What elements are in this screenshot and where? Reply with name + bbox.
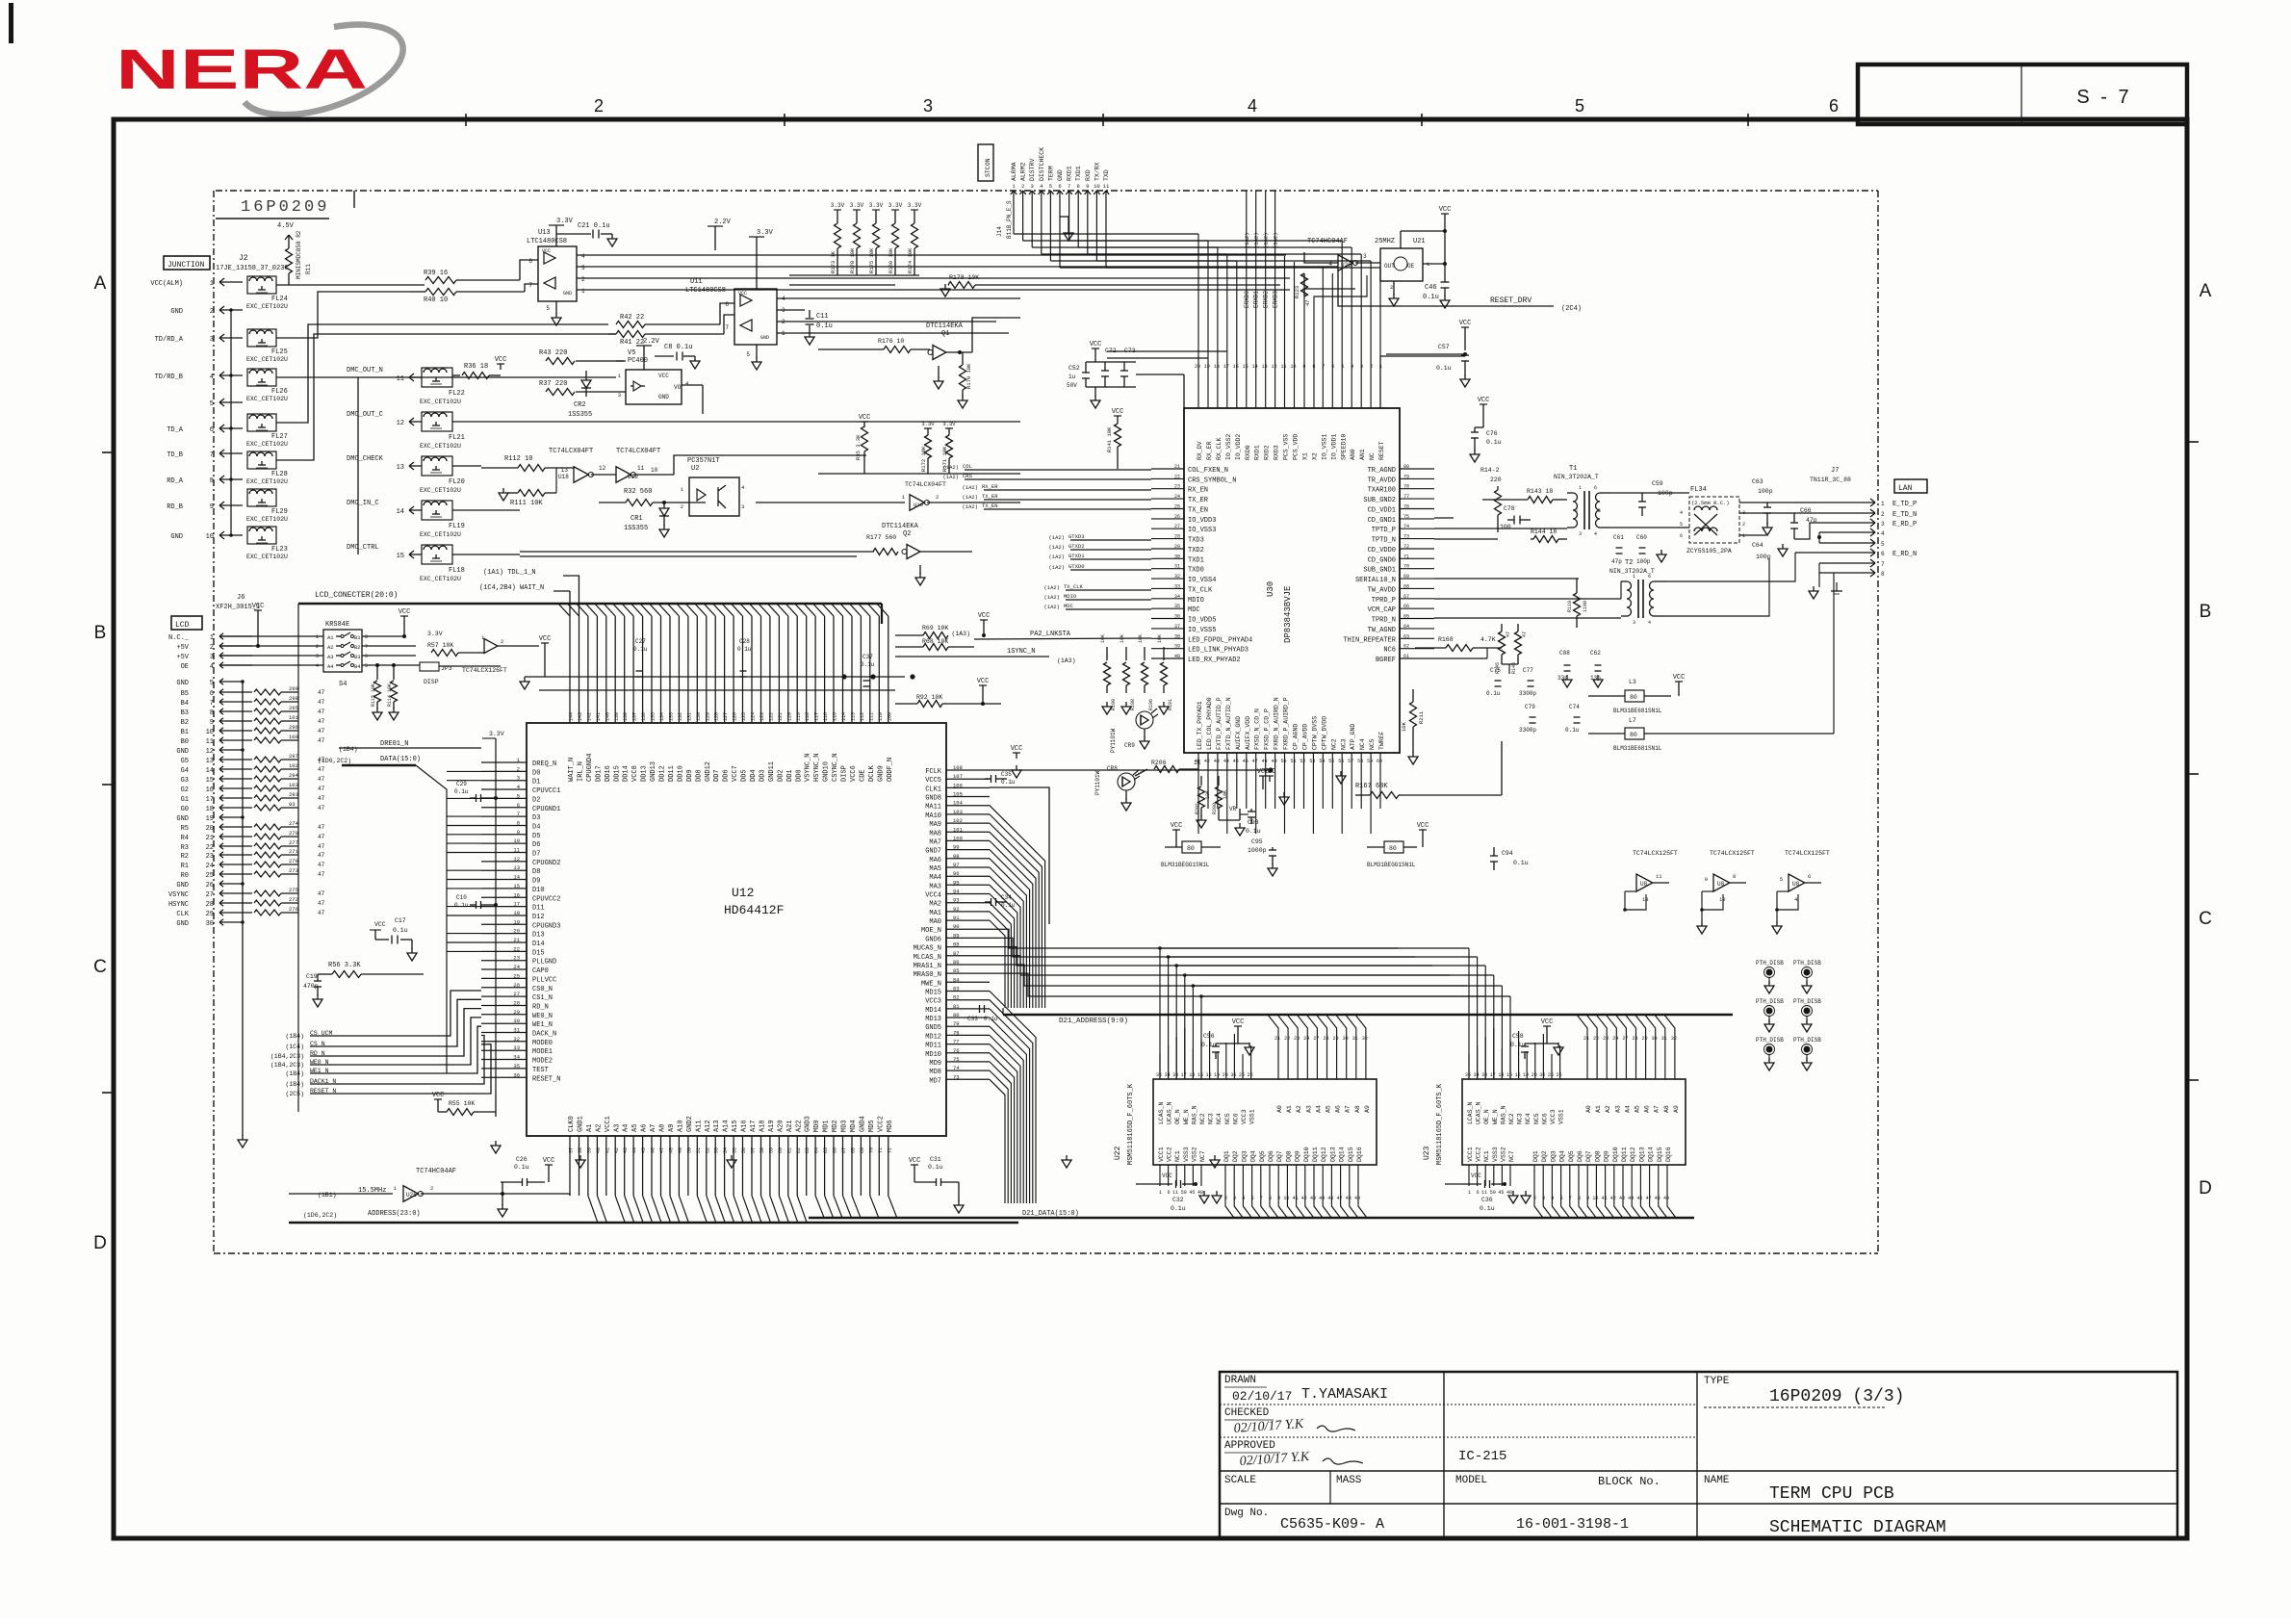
- wires U30 TPRD to T2: [1434, 598, 1621, 600]
- svg-text:MRAS0_N: MRAS0_N: [914, 971, 941, 979]
- svg-text:36: 36: [1539, 1072, 1545, 1078]
- svg-text:10: 10: [1592, 1196, 1598, 1201]
- svg-text:64: 64: [1403, 624, 1409, 630]
- svg-text:47: 47: [318, 852, 325, 859]
- resistor 47ohm net 297: [254, 757, 281, 762]
- svg-text:94: 94: [953, 889, 960, 895]
- svg-text:MD9: MD9: [929, 1060, 941, 1068]
- svg-text:31: 31: [1174, 564, 1180, 570]
- svg-text:51: 51: [696, 1147, 702, 1153]
- svg-text:A7: A7: [650, 1124, 657, 1132]
- svg-text:X2: X2: [1311, 452, 1318, 460]
- svg-text:DRAWN: DRAWN: [1224, 1375, 1256, 1386]
- svg-text:(1A2): (1A2): [962, 494, 978, 501]
- svg-text:2: 2: [1533, 1196, 1536, 1201]
- svg-text:C10: C10: [456, 894, 467, 901]
- svg-text:47: 47: [318, 689, 325, 696]
- svg-text:G2: G2: [181, 786, 189, 794]
- svg-text:VCC: VCC: [1011, 745, 1023, 753]
- svg-text:CPUGND1: CPUGND1: [532, 806, 560, 813]
- svg-text:MD3: MD3: [841, 1120, 849, 1132]
- svg-text:MD7: MD7: [929, 1077, 941, 1085]
- svg-text:EXC_CET102U: EXC_CET102U: [246, 554, 288, 560]
- capacitor C11 0.1u: [777, 309, 805, 311]
- svg-text:58: 58: [1357, 759, 1363, 764]
- filter FL29 EXC_CET102U: [247, 489, 276, 506]
- wire bus y337: [276, 376, 616, 378]
- svg-text:8: 8: [1881, 571, 1885, 578]
- svg-text:6: 6: [725, 301, 729, 308]
- svg-text:R55 10K: R55 10K: [449, 1100, 475, 1107]
- svg-text:16: 16: [1515, 1072, 1521, 1078]
- svg-text:16P0209: 16P0209: [241, 198, 329, 217]
- svg-text:C93: C93: [1248, 819, 1259, 826]
- svg-text:(1D6,2C2): (1D6,2C2): [318, 758, 351, 764]
- C31 gnd: [958, 1182, 960, 1201]
- resistor R41: [616, 331, 645, 338]
- svg-text:3.3V: 3.3V: [850, 202, 864, 209]
- svg-text:LED_TX_PHYAD1: LED_TX_PHYAD1: [1197, 701, 1203, 750]
- junction dots top rail: [841, 674, 846, 679]
- svg-text:47: 47: [318, 737, 325, 744]
- J6 pin 17 G1: [219, 795, 223, 798]
- svg-text:U21: U21: [1413, 238, 1426, 245]
- svg-text:A2: A2: [1296, 1105, 1302, 1113]
- svg-text:C37: C37: [862, 654, 873, 660]
- svg-text:LTC1480CS8: LTC1480CS8: [685, 287, 726, 295]
- svg-text:R110: R110: [1567, 601, 1573, 612]
- U22 DQ pins: [1225, 1165, 1367, 1218]
- U22 A0-A9 pins: [1268, 1015, 1366, 1079]
- svg-text:C52: C52: [1068, 365, 1080, 372]
- svg-text:7: 7: [365, 644, 368, 650]
- svg-text:NC4: NC4: [1216, 1113, 1223, 1124]
- svg-text:EXC_CET102U: EXC_CET102U: [420, 443, 461, 450]
- svg-text:47: 47: [318, 890, 325, 897]
- svg-text:4: 4: [210, 374, 214, 381]
- svg-text:26: 26: [1174, 514, 1180, 520]
- svg-text:47: 47: [1304, 299, 1311, 306]
- svg-text:R169 10K: R169 10K: [888, 247, 894, 273]
- resistor R39: [425, 277, 456, 284]
- J6 pin 8 B3: [219, 709, 223, 711]
- IC U30 DP83843BVJE body: [1184, 408, 1400, 753]
- svg-text:B: B: [94, 623, 107, 643]
- svg-text:RAS_N: RAS_N: [1500, 1105, 1506, 1124]
- svg-text:144: 144: [569, 712, 575, 721]
- svg-text:2: 2: [517, 765, 520, 772]
- svg-text:NC5: NC5: [1369, 738, 1376, 750]
- control drop wires U22: [1160, 948, 1201, 1079]
- svg-text:47: 47: [318, 910, 325, 916]
- J6 pin 1 N.C._: [219, 633, 223, 636]
- svg-text:A5: A5: [1326, 1105, 1332, 1113]
- J14 harness to right: [1013, 233, 1015, 235]
- svg-text:29: 29: [1333, 1036, 1339, 1042]
- svg-text:42: 42: [614, 1147, 620, 1153]
- svg-text:C5635-K09- A: C5635-K09- A: [1280, 1516, 1384, 1533]
- svg-text:D13: D13: [532, 932, 545, 940]
- resistors R115 R114 pulldown: [376, 665, 378, 680]
- svg-text:4: 4: [1551, 1196, 1554, 1201]
- svg-text:GND: GND: [176, 882, 189, 889]
- svg-text:DATA(15:0): DATA(15:0): [380, 756, 421, 763]
- sheet number box S-7: [1858, 64, 2187, 124]
- svg-text:DQ13: DQ13: [1638, 1147, 1645, 1162]
- svg-text:GND8: GND8: [925, 795, 941, 803]
- svg-text:C21 0.1u: C21 0.1u: [578, 222, 610, 230]
- svg-text:0.1u: 0.1u: [737, 646, 752, 653]
- svg-text:75: 75: [953, 1056, 960, 1063]
- LAN label: [1894, 479, 1927, 493]
- svg-text:DQ5: DQ5: [1259, 1150, 1266, 1162]
- svg-text:NC6: NC6: [1383, 647, 1396, 655]
- ferrite L3 80: [1625, 690, 1644, 702]
- svg-text:C8 0.1u: C8 0.1u: [664, 344, 692, 351]
- NERA logo swoosh: [245, 25, 403, 116]
- svg-text:PLLVCC: PLLVCC: [532, 976, 556, 984]
- svg-text:C59: C59: [1652, 480, 1663, 487]
- svg-text:D12: D12: [532, 914, 545, 921]
- svg-text:6: 6: [210, 426, 214, 434]
- svg-text:47: 47: [318, 843, 325, 850]
- svg-text:131: 131: [686, 712, 692, 721]
- IC U11 LTC1480CS8: [734, 289, 777, 345]
- svg-text:A5: A5: [631, 1124, 639, 1132]
- svg-text:A0: A0: [1585, 1105, 1592, 1113]
- svg-text:VCC3: VCC3: [1241, 1109, 1248, 1124]
- svg-text:R201: R201: [1195, 803, 1200, 814]
- svg-text:3: 3: [1233, 1196, 1236, 1201]
- svg-text:24: 24: [1303, 1036, 1309, 1042]
- svg-text:47: 47: [318, 862, 325, 868]
- svg-text:1: 1: [210, 280, 214, 288]
- svg-text:88: 88: [953, 941, 960, 948]
- svg-text:2: 2: [681, 503, 683, 510]
- svg-text:MD6: MD6: [887, 1120, 894, 1132]
- svg-text:30: 30: [1652, 1036, 1658, 1042]
- J6 gnd chain: [242, 682, 244, 922]
- svg-text:9: 9: [210, 719, 214, 727]
- svg-text:GND13: GND13: [650, 761, 657, 782]
- svg-text:LED_LINK_PHYAD3: LED_LINK_PHYAD3: [1188, 647, 1248, 655]
- svg-text:MA2: MA2: [929, 901, 941, 909]
- svg-text:NC7: NC7: [1199, 1150, 1206, 1162]
- svg-text:LCD: LCD: [175, 621, 190, 630]
- svg-text:24: 24: [1174, 494, 1180, 500]
- svg-text:MSM5118165D_F_60TS_K: MSM5118165D_F_60TS_K: [1436, 1083, 1444, 1165]
- svg-text:R198: R198: [1130, 699, 1136, 710]
- svg-text:34: 34: [513, 1054, 520, 1061]
- svg-text:DD1: DD1: [786, 769, 794, 782]
- svg-text:(1A3): (1A3): [1057, 657, 1076, 664]
- svg-text:RD_N: RD_N: [532, 1003, 549, 1011]
- J2 pin 6 TD_A: [219, 425, 224, 428]
- svg-text:53: 53: [1309, 759, 1315, 764]
- svg-text:39: 39: [1174, 644, 1180, 650]
- wire Q1 up: [972, 318, 1020, 352]
- svg-text:TXD0: TXD0: [1188, 567, 1204, 575]
- svg-text:FL19: FL19: [449, 523, 465, 530]
- svg-text:0.1u: 0.1u: [1171, 1205, 1186, 1212]
- svg-text:TC74LCX125FT: TC74LCX125FT: [1710, 850, 1755, 857]
- svg-text:121: 121: [778, 712, 784, 721]
- svg-text:MASS: MASS: [1336, 1475, 1362, 1486]
- svg-text:4: 4: [1248, 96, 1257, 116]
- svg-text:32: 32: [1362, 1036, 1368, 1042]
- svg-text:VSYNC_N: VSYNC_N: [805, 754, 812, 782]
- svg-text:85: 85: [953, 967, 960, 974]
- resistor 47ohm net 271: [254, 852, 281, 858]
- optocoupler PC400 V5: [626, 370, 682, 404]
- svg-text:DQ11: DQ11: [1621, 1147, 1628, 1162]
- resistor R37 220: [546, 389, 575, 396]
- svg-text:B4: B4: [354, 663, 361, 670]
- svg-text:138: 138: [623, 712, 629, 721]
- svg-text:C58: C58: [1512, 1033, 1524, 1040]
- svg-text:B3: B3: [181, 709, 189, 717]
- svg-text:A2: A2: [327, 644, 334, 651]
- svg-text:TPTD_P: TPTD_P: [1372, 527, 1396, 534]
- svg-text:IO_VSS4: IO_VSS4: [1188, 577, 1216, 584]
- svg-text:45: 45: [641, 1147, 647, 1153]
- svg-text:36: 36: [513, 1071, 520, 1078]
- svg-text:TX/RX: TX/RX: [1094, 162, 1100, 181]
- svg-text:7: 7: [725, 324, 729, 331]
- svg-text:297: 297: [289, 753, 298, 760]
- svg-text:47: 47: [1646, 1196, 1652, 1201]
- svg-text:65: 65: [1403, 614, 1409, 620]
- svg-text:ATP_GND: ATP_GND: [1350, 724, 1356, 750]
- svg-text:NC3: NC3: [1340, 738, 1347, 750]
- svg-text:D11: D11: [532, 905, 545, 913]
- svg-text:DQ3: DQ3: [1550, 1150, 1557, 1162]
- svg-text:52: 52: [705, 1147, 710, 1153]
- svg-text:9: 9: [210, 503, 214, 511]
- svg-text:DD12: DD12: [659, 765, 667, 782]
- svg-text:MA9: MA9: [929, 821, 941, 829]
- filter FL24 EXC_CET102U: [247, 276, 276, 294]
- svg-text:NC5: NC5: [1533, 1113, 1540, 1124]
- svg-text:VCC: VCC: [1171, 822, 1183, 830]
- svg-text:46: 46: [1327, 1196, 1333, 1201]
- svg-text:PLLGND: PLLGND: [532, 959, 556, 967]
- svg-text:CPTW_DVDD: CPTW_DVDD: [1321, 716, 1327, 750]
- svg-text:11: 11: [397, 375, 404, 383]
- svg-text:UCAS_N: UCAS_N: [1167, 1101, 1173, 1124]
- data bus jogs U12: [815, 1196, 897, 1218]
- svg-text:7: 7: [1881, 561, 1885, 568]
- svg-text:28: 28: [1632, 1036, 1637, 1042]
- svg-text:DD14: DD14: [623, 765, 631, 782]
- svg-text:73: 73: [1403, 534, 1409, 540]
- svg-text:D8: D8: [532, 868, 540, 876]
- svg-text:4: 4: [1881, 530, 1885, 537]
- svg-text:93: 93: [289, 801, 296, 808]
- svg-text:CSYNC_N: CSYNC_N: [832, 754, 839, 782]
- LED CR9 PY1101W: [1136, 711, 1153, 729]
- capacitor C21 0.1u: [556, 233, 591, 235]
- J6 pin 10 B1: [219, 728, 223, 731]
- svg-text:103: 103: [953, 809, 963, 815]
- svg-text:64: 64: [814, 1147, 820, 1153]
- svg-text:RX_ER: RX_ER: [1206, 441, 1213, 460]
- svg-text:U26: U26: [406, 1192, 417, 1199]
- svg-text:82: 82: [953, 994, 960, 1001]
- svg-text:C60: C60: [1636, 534, 1647, 541]
- U11 gnd: [756, 345, 758, 358]
- U12 bottom pins: [570, 1136, 888, 1196]
- svg-text:VCC: VCC: [658, 373, 669, 379]
- svg-text:C17: C17: [395, 917, 406, 924]
- svg-text:E_TD_N: E_TD_N: [1892, 511, 1917, 519]
- J2 pin 10 GND: [219, 531, 224, 535]
- svg-text:C74: C74: [1569, 704, 1580, 710]
- svg-text:FL34: FL34: [1690, 486, 1707, 494]
- svg-text:6: 6: [365, 654, 368, 659]
- svg-text:ADDRESS(23:0): ADDRESS(23:0): [368, 1210, 421, 1218]
- svg-text:273: 273: [289, 867, 298, 874]
- svg-text:RXD0: RXD0: [1245, 445, 1251, 460]
- svg-text:0.1u: 0.1u: [1480, 1205, 1495, 1212]
- svg-text:LCAS_N: LCAS_N: [1158, 1101, 1165, 1124]
- svg-text:(1B4): (1B4): [339, 746, 358, 753]
- svg-text:NC4: NC4: [1525, 1113, 1532, 1124]
- svg-text:FL23: FL23: [271, 546, 288, 554]
- svg-text:134: 134: [659, 712, 665, 721]
- svg-text:77: 77: [1403, 494, 1409, 500]
- svg-text:55: 55: [733, 1147, 738, 1153]
- svg-text:RESET_DRV: RESET_DRV: [1490, 296, 1532, 305]
- resistor 47ohm net 299: [254, 689, 281, 695]
- svg-text:MD13: MD13: [925, 1016, 941, 1023]
- svg-text:VCC4: VCC4: [925, 892, 941, 900]
- svg-text:TYPE: TYPE: [1704, 1376, 1730, 1387]
- U23 gnd pair: [1512, 1191, 1514, 1196]
- svg-text:3: 3: [517, 775, 520, 782]
- svg-text:NC2: NC2: [1330, 738, 1337, 750]
- svg-text:21: 21: [513, 937, 520, 943]
- svg-text:R3: R3: [181, 844, 189, 852]
- U30 left pins: [1151, 469, 1184, 658]
- svg-text:C: C: [2199, 909, 2212, 929]
- svg-text:FXRD_N_AUIRD_N: FXRD_N_AUIRD_N: [1274, 697, 1280, 750]
- svg-text:5: 5: [1598, 508, 1601, 514]
- svg-text:V5: V5: [628, 349, 635, 357]
- resistor 47ohm net 296: [254, 728, 281, 734]
- svg-text:59: 59: [1367, 759, 1373, 764]
- svg-text:R5: R5: [181, 825, 189, 833]
- svg-text:30: 30: [513, 1018, 520, 1024]
- svg-text:NIN_3T202A_T: NIN_3T202A_T: [1554, 474, 1599, 480]
- svg-text:20: 20: [1532, 1072, 1537, 1078]
- svg-text:B: B: [2200, 602, 2212, 622]
- svg-text:OE: OE: [181, 663, 189, 671]
- svg-text:26: 26: [513, 982, 520, 989]
- svg-text:7: 7: [517, 811, 520, 817]
- svg-text:GND: GND: [170, 308, 183, 316]
- svg-text:FL27: FL27: [271, 433, 288, 441]
- svg-text:(1A3): (1A3): [951, 631, 970, 637]
- svg-text:8: 8: [210, 477, 214, 485]
- svg-text:TWREF: TWREF: [1378, 731, 1385, 750]
- svg-text:48: 48: [668, 1147, 674, 1153]
- svg-text:125: 125: [741, 712, 747, 721]
- svg-text:10: 10: [513, 838, 520, 844]
- buffer gate U10 TC74LCX04FT: [910, 495, 924, 511]
- svg-text:40: 40: [1174, 654, 1180, 659]
- title block row lines: [1220, 1404, 1697, 1405]
- svg-text:(1A2): (1A2): [1048, 534, 1065, 541]
- svg-text:R11: R11: [305, 264, 312, 274]
- svg-text:220: 220: [1490, 477, 1502, 483]
- svg-text:37: 37: [1174, 624, 1180, 630]
- svg-text:8: 8: [1077, 183, 1080, 190]
- svg-text:74: 74: [953, 1065, 960, 1071]
- svg-text:49: 49: [1663, 1196, 1669, 1201]
- svg-text:PC400: PC400: [628, 357, 648, 365]
- svg-text:142: 142: [586, 712, 592, 721]
- svg-text:278: 278: [289, 858, 298, 864]
- svg-text:N.C._: N.C._: [168, 634, 190, 642]
- svg-text:9: 9: [1277, 1196, 1280, 1201]
- svg-text:46: 46: [1636, 1196, 1642, 1201]
- svg-text:47: 47: [1506, 632, 1511, 637]
- svg-text:119: 119: [796, 712, 802, 721]
- svg-text:VCC3: VCC3: [1550, 1109, 1557, 1124]
- svg-text:5: 5: [546, 305, 550, 312]
- svg-text:35: 35: [1465, 1072, 1471, 1078]
- svg-text:D6: D6: [532, 841, 540, 849]
- svg-text:MD1: MD1: [823, 1120, 831, 1132]
- svg-text:29: 29: [206, 911, 214, 918]
- svg-text:54: 54: [1319, 759, 1325, 764]
- svg-text:79: 79: [1403, 474, 1409, 479]
- svg-text:32: 32: [513, 1036, 520, 1043]
- resistors R145 R146 47: [1501, 624, 1503, 632]
- svg-text:10: 10: [651, 467, 658, 474]
- svg-text:B11B_PN_E_S: B11B_PN_E_S: [1006, 200, 1013, 239]
- svg-text:(1A2): (1A2): [962, 484, 978, 491]
- svg-text:C19: C19: [306, 973, 318, 980]
- svg-text:0.1u: 0.1u: [1510, 1042, 1526, 1048]
- svg-text:U18: U18: [558, 474, 569, 480]
- svg-text:C56: C56: [1203, 1033, 1215, 1040]
- svg-text:B3: B3: [354, 654, 361, 660]
- svg-text:6: 6: [1594, 485, 1597, 491]
- svg-text:MINISMDC858 R2: MINISMDC858 R2: [296, 230, 302, 279]
- svg-text:47: 47: [1522, 632, 1528, 637]
- svg-text:40: 40: [1197, 1190, 1203, 1196]
- svg-text:FXTD_P_AUTID_P: FXTD_P_AUTID_P: [1216, 697, 1223, 750]
- svg-text:43: 43: [623, 1147, 629, 1153]
- svg-text:0.1u: 0.1u: [1565, 727, 1580, 734]
- U23 top-left pins: [1469, 1028, 1560, 1079]
- svg-text:R57 10K: R57 10K: [427, 642, 453, 649]
- svg-text:VCC: VCC: [738, 291, 747, 296]
- svg-text:DCLK: DCLK: [868, 764, 876, 782]
- svg-text:4: 4: [1242, 1196, 1245, 1201]
- svg-text:52: 52: [1300, 759, 1305, 764]
- svg-text:293: 293: [289, 791, 298, 798]
- svg-text:IO_VSS5: IO_VSS5: [1188, 627, 1216, 634]
- svg-text:TPRD_P: TPRD_P: [1372, 597, 1396, 605]
- svg-text:C79: C79: [1525, 704, 1535, 710]
- svg-text:103: 103: [289, 782, 298, 788]
- resistor 47ohm net 101: [254, 718, 281, 724]
- svg-text:3: 3: [581, 265, 585, 271]
- svg-text:A3: A3: [1614, 1105, 1621, 1113]
